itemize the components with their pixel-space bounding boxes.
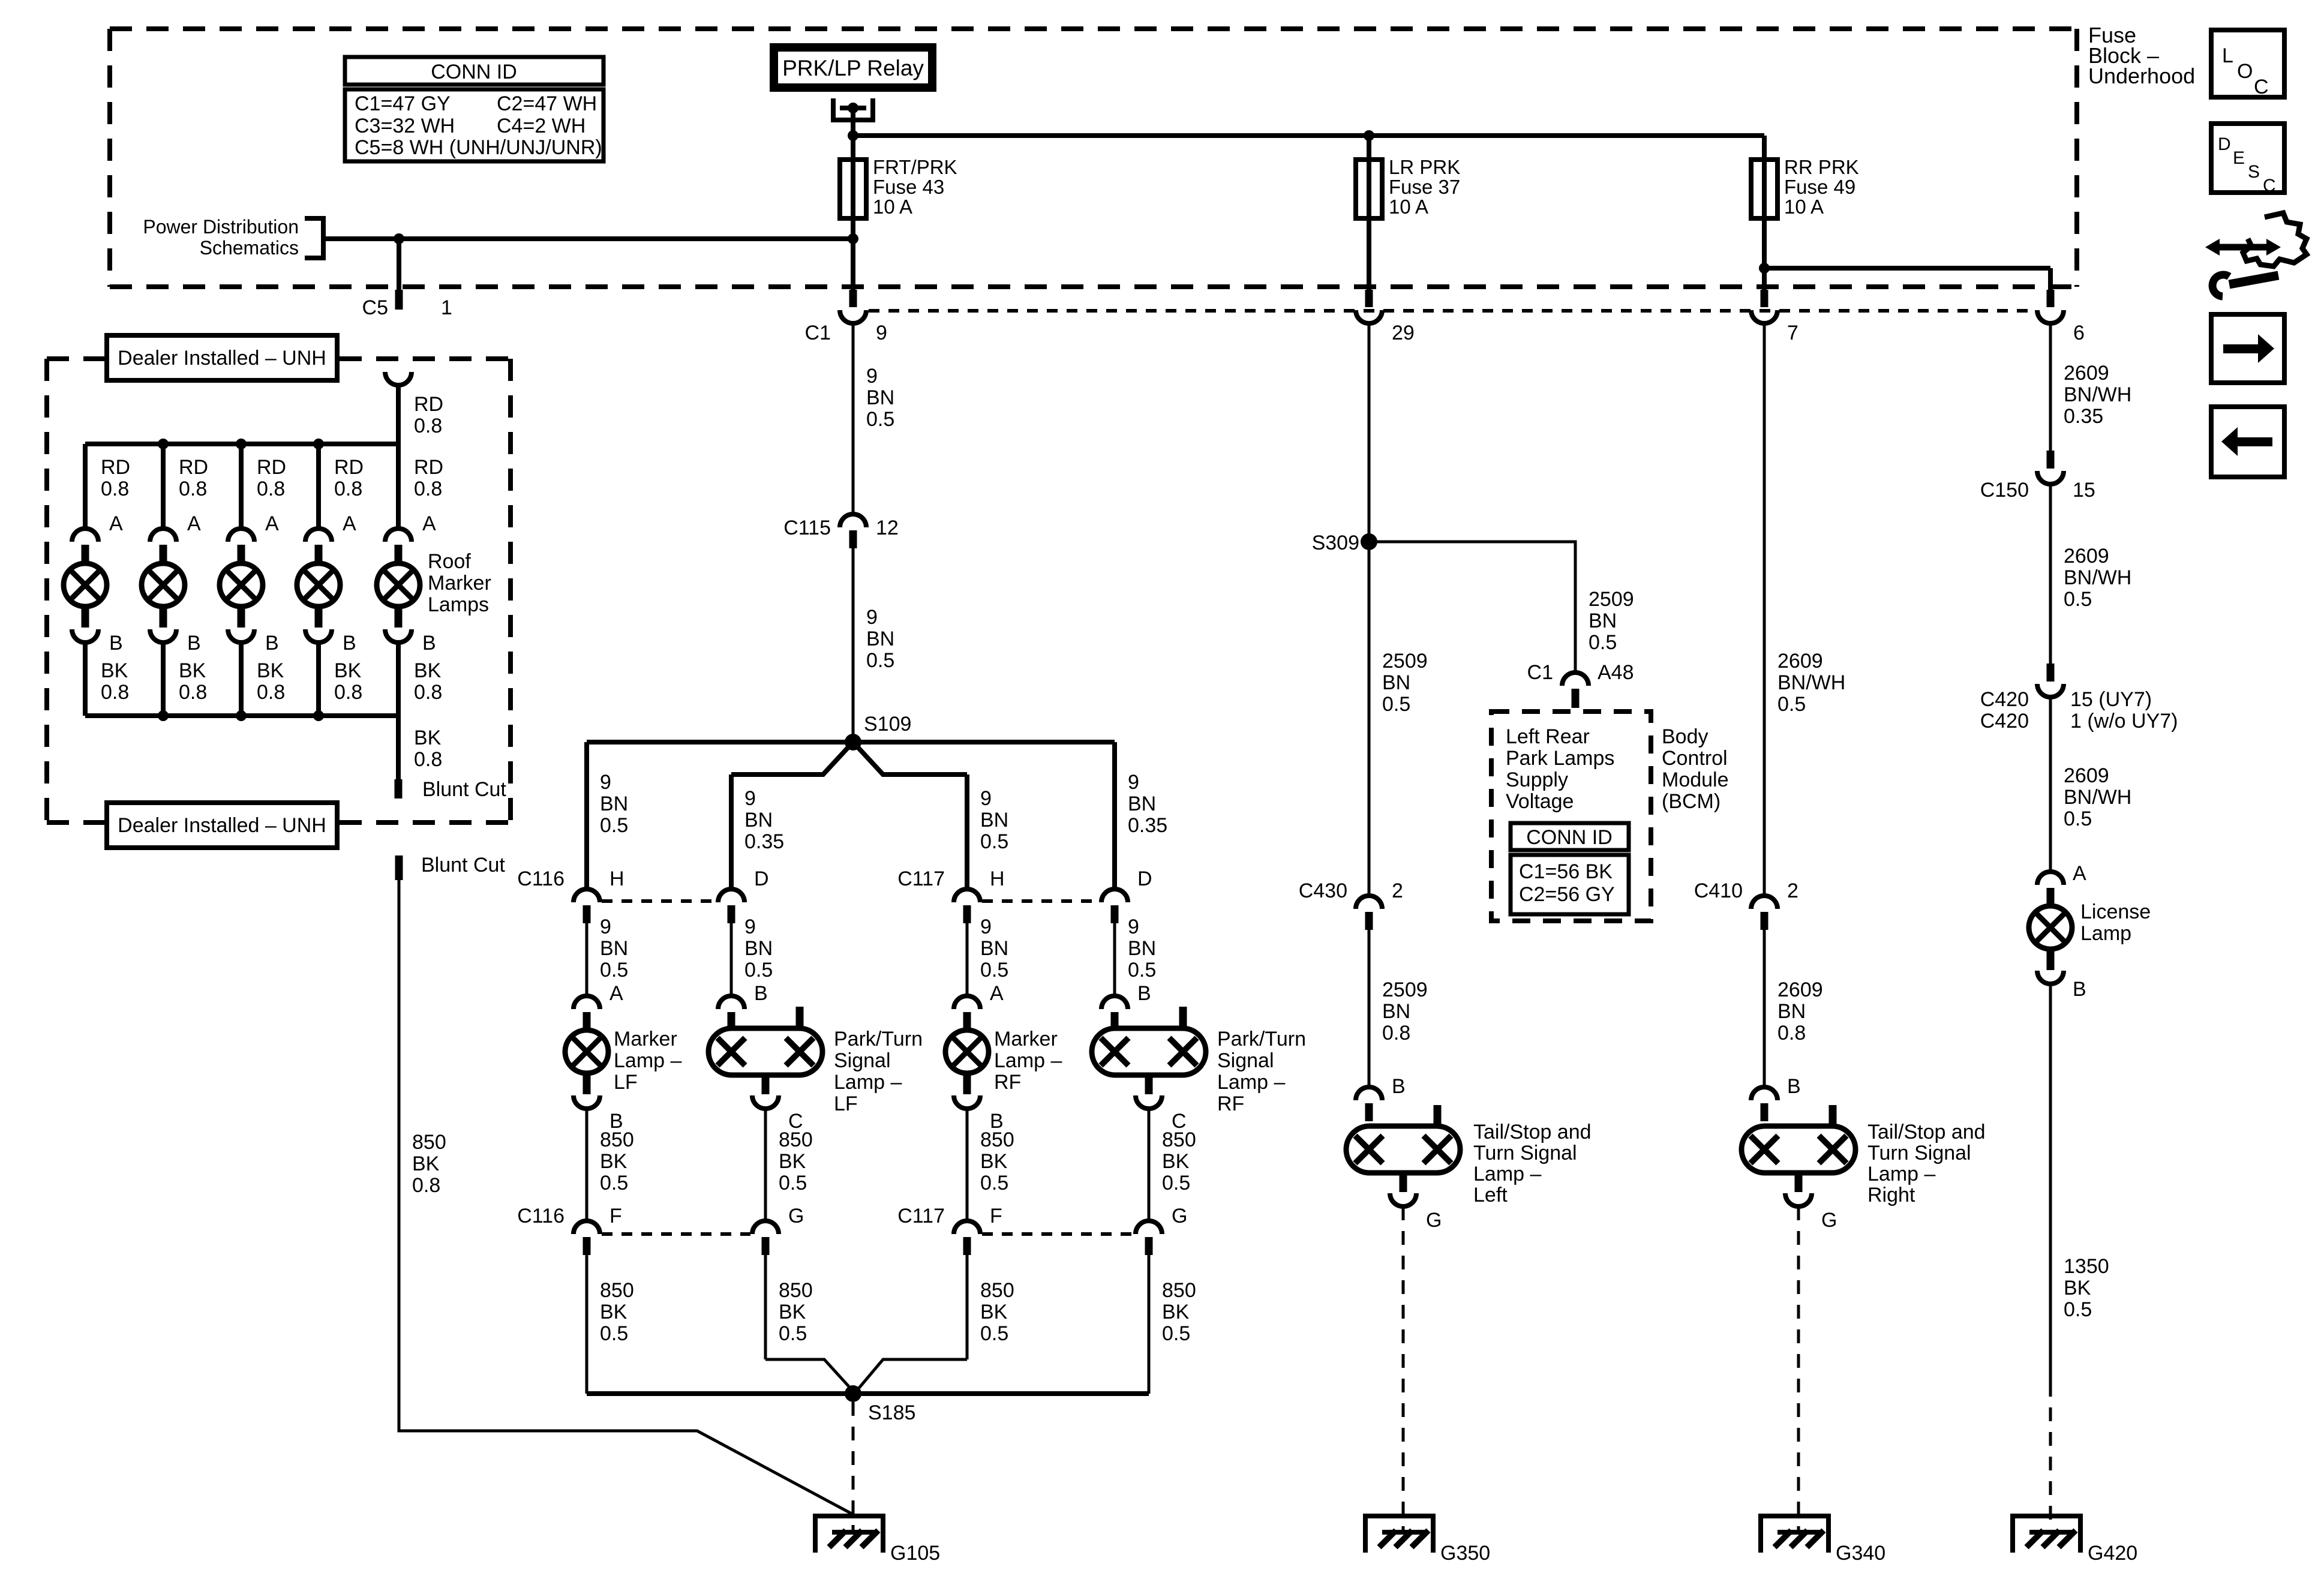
svg-text:0.5: 0.5 xyxy=(866,649,894,672)
wire S185 to G105 xyxy=(852,1402,855,1532)
connector C1 pin 29 xyxy=(1365,290,1373,307)
svg-text:850: 850 xyxy=(779,1128,813,1151)
svg-text:S309: S309 xyxy=(1312,532,1359,554)
connector C430 pin 2 xyxy=(1356,896,1382,909)
connector C116 H/D dashed outline xyxy=(602,899,716,903)
icon back arrow box xyxy=(2211,407,2284,477)
svg-text:BN/WH: BN/WH xyxy=(1777,671,1845,694)
svg-text:BK: BK xyxy=(779,1301,806,1323)
svg-text:0.8: 0.8 xyxy=(101,681,129,704)
svg-text:A48: A48 xyxy=(1598,661,1634,684)
wire branch to C116 D xyxy=(729,775,734,889)
svg-text:0.8: 0.8 xyxy=(414,478,442,500)
svg-text:Lamp –: Lamp – xyxy=(1473,1163,1541,1185)
svg-text:0.5: 0.5 xyxy=(779,1172,807,1194)
svg-text:C117: C117 xyxy=(897,1205,945,1227)
svg-text:RD: RD xyxy=(414,393,443,416)
svg-text:Right: Right xyxy=(1867,1184,1915,1206)
svg-text:S: S xyxy=(2248,162,2260,182)
svg-text:850: 850 xyxy=(980,1128,1014,1151)
connector pin G xyxy=(752,1221,779,1234)
wire branch to C116 H xyxy=(584,742,589,889)
connector roof marker harness end xyxy=(385,372,412,385)
svg-text:BN: BN xyxy=(1128,792,1156,815)
wire branch to C117 D xyxy=(1112,742,1117,889)
wire 2609 BN/WH 0.5 (C150 to C420) xyxy=(2049,484,2052,664)
wire branch to C117 H xyxy=(965,775,969,889)
svg-text:15 (UY7): 15 (UY7) xyxy=(2070,688,2152,711)
blunt cut (inside dealer box) xyxy=(395,779,403,798)
svg-text:B: B xyxy=(422,632,436,655)
svg-text:BN: BN xyxy=(1777,1000,1806,1023)
wire 9 BN 0.5 to lamp xyxy=(966,923,969,996)
svg-text:0.5: 0.5 xyxy=(744,959,773,981)
svg-text:G: G xyxy=(1426,1209,1442,1232)
svg-text:2609: 2609 xyxy=(1777,650,1823,673)
connector pin D xyxy=(1101,889,1128,902)
svg-text:Voltage: Voltage xyxy=(1506,790,1574,813)
svg-text:B: B xyxy=(2073,978,2086,1001)
connector C117 F/G dashed outline xyxy=(982,1232,1134,1236)
svg-text:0.8: 0.8 xyxy=(414,681,442,704)
svg-text:0.5: 0.5 xyxy=(1382,693,1410,716)
svg-text:C410: C410 xyxy=(1694,879,1743,902)
tail/stop and turn signal lamp right xyxy=(1742,1105,1855,1206)
wire 2509 BN 0.5 (S309 to C430) xyxy=(1368,550,1371,896)
svg-text:0.8: 0.8 xyxy=(414,415,442,437)
svg-text:Supply: Supply xyxy=(1506,769,1568,791)
wire RR PRK fuse column xyxy=(1762,136,1767,290)
svg-text:C: C xyxy=(2263,176,2276,196)
connector C1 dashed outline xyxy=(869,309,2036,313)
svg-text:D: D xyxy=(754,867,769,890)
wire C117 F to S185 xyxy=(966,1255,969,1359)
svg-text:850: 850 xyxy=(1162,1128,1196,1151)
svg-text:BN: BN xyxy=(980,937,1008,960)
svg-text:Marker: Marker xyxy=(614,1028,677,1050)
svg-text:Lamp: Lamp xyxy=(2080,922,2131,945)
node relay/bus junction xyxy=(848,130,858,141)
svg-text:12: 12 xyxy=(876,517,899,539)
svg-text:S185: S185 xyxy=(868,1401,915,1424)
svg-text:0.8: 0.8 xyxy=(334,478,362,500)
svg-text:0.8: 0.8 xyxy=(101,478,129,500)
node RR PRK pin-6 branch junction xyxy=(1759,263,1770,274)
svg-text:C117: C117 xyxy=(897,867,945,890)
svg-text:Lamp –: Lamp – xyxy=(1867,1163,1935,1185)
svg-text:Park/Turn: Park/Turn xyxy=(1217,1028,1306,1050)
svg-text:BK: BK xyxy=(101,659,128,682)
wire 850 BK 0.8 to G105 xyxy=(399,880,855,1515)
svg-text:Lamp –: Lamp – xyxy=(834,1071,902,1094)
svg-text:0.5: 0.5 xyxy=(980,959,1008,981)
svg-text:D: D xyxy=(1137,867,1152,890)
svg-text:H: H xyxy=(990,867,1005,890)
wire RR PRK to pin 6 xyxy=(1764,266,2050,271)
svg-text:BN/WH: BN/WH xyxy=(2064,383,2131,406)
wire 1350 BK 0.5 xyxy=(2049,984,2052,1383)
ground G350 xyxy=(1363,1516,1436,1553)
svg-text:Underhood: Underhood xyxy=(2088,64,2195,88)
svg-text:0.35: 0.35 xyxy=(1128,814,1167,837)
svg-text:0.8: 0.8 xyxy=(334,681,362,704)
svg-text:A: A xyxy=(265,512,279,535)
label box Dealer Installed UNH (top) xyxy=(107,335,337,380)
license lamp xyxy=(2029,906,2072,984)
connector C1 pin 9 xyxy=(849,290,857,307)
park/turn signal lamp LF xyxy=(708,1007,822,1109)
wire fuse supply bus xyxy=(853,133,1764,138)
svg-text:BK: BK xyxy=(600,1301,627,1323)
connector lamp input xyxy=(718,996,744,1009)
svg-text:BN: BN xyxy=(1382,671,1410,694)
wire LR PRK fuse column xyxy=(1367,136,1371,290)
svg-text:BN/WH: BN/WH xyxy=(2064,566,2131,589)
svg-text:CONN ID: CONN ID xyxy=(1526,826,1613,849)
svg-text:E: E xyxy=(2233,148,2245,168)
fuse RR PRK Fuse 49 10A xyxy=(1751,160,1777,218)
svg-text:C1: C1 xyxy=(805,322,831,344)
ground G420 xyxy=(2010,1516,2083,1553)
svg-text:G: G xyxy=(1172,1205,1187,1227)
svg-text:BK: BK xyxy=(334,659,362,682)
connector C1 pin 6 xyxy=(2047,290,2055,307)
label box Dealer Installed UNH (bottom) xyxy=(107,803,337,848)
splice S109 xyxy=(845,734,861,751)
svg-text:G: G xyxy=(1821,1209,1837,1232)
node roof marker bus junction xyxy=(236,439,247,449)
svg-text:G350: G350 xyxy=(1440,1542,1490,1565)
svg-text:C4=2 WH: C4=2 WH xyxy=(497,115,585,137)
svg-text:PRK/LP Relay: PRK/LP Relay xyxy=(782,56,924,80)
svg-text:9: 9 xyxy=(876,322,887,344)
svg-text:Fuse 37: Fuse 37 xyxy=(1389,176,1460,198)
svg-text:A: A xyxy=(187,512,201,535)
node power feed fuse column junction xyxy=(848,233,858,244)
wire 9 BN 0.5 to lamp xyxy=(730,923,733,996)
svg-text:C5: C5 xyxy=(362,296,388,319)
svg-text:0.35: 0.35 xyxy=(2064,405,2103,428)
svg-text:0.5: 0.5 xyxy=(600,959,628,981)
svg-text:RD: RD xyxy=(179,456,208,479)
connector pin H xyxy=(954,889,980,902)
svg-text:0.8: 0.8 xyxy=(257,478,285,500)
BCM dashed box xyxy=(1491,712,1651,921)
svg-text:B: B xyxy=(265,632,279,655)
svg-text:C420: C420 xyxy=(1980,710,2029,733)
fuse FRT/PRK Fuse 43 10A xyxy=(840,160,866,218)
svg-text:10 A: 10 A xyxy=(1784,196,1824,218)
svg-text:0.35: 0.35 xyxy=(744,830,784,853)
node roof marker bus junction xyxy=(313,439,324,449)
svg-text:C2=47 WH: C2=47 WH xyxy=(497,92,597,115)
svg-text:Fuse 43: Fuse 43 xyxy=(873,176,944,198)
svg-text:RR PRK: RR PRK xyxy=(1784,156,1859,178)
svg-text:A: A xyxy=(609,982,623,1005)
svg-text:C420: C420 xyxy=(1980,688,2029,711)
svg-text:BK: BK xyxy=(179,659,206,682)
connector C410 pin 2 xyxy=(1751,896,1777,909)
svg-text:RF: RF xyxy=(994,1071,1021,1094)
svg-text:BK: BK xyxy=(1162,1150,1190,1173)
CONN ID table (BCM) xyxy=(1511,823,1629,914)
svg-text:0.8: 0.8 xyxy=(414,748,442,771)
connector C116 F/G dashed outline xyxy=(602,1232,750,1236)
connector C1 pin 7 xyxy=(1761,290,1768,307)
svg-text:A: A xyxy=(990,982,1004,1005)
svg-text:2609: 2609 xyxy=(1777,978,1823,1001)
svg-text:Lamp –: Lamp – xyxy=(614,1049,681,1072)
svg-text:Lamp –: Lamp – xyxy=(994,1049,1062,1072)
svg-text:2509: 2509 xyxy=(1382,650,1428,673)
wire 9 BN 0.5 to lamp xyxy=(585,923,588,996)
svg-text:9: 9 xyxy=(744,787,756,810)
icon forward arrow box xyxy=(2211,314,2284,383)
wire C117 G to S185 xyxy=(1148,1255,1151,1394)
connector C115 pin 12 xyxy=(840,514,866,527)
svg-text:BK: BK xyxy=(980,1301,1008,1323)
svg-text:Park Lamps: Park Lamps xyxy=(1506,747,1614,770)
svg-text:0.5: 0.5 xyxy=(980,1322,1008,1345)
svg-text:Signal: Signal xyxy=(834,1049,891,1072)
svg-text:0.8: 0.8 xyxy=(179,478,207,500)
wire C116 G to S185 xyxy=(764,1255,767,1359)
wire 2509 BN 0.8 (C430 to lamp) xyxy=(1368,930,1371,1087)
svg-text:9: 9 xyxy=(600,915,611,938)
svg-text:O: O xyxy=(2237,60,2253,83)
svg-text:7: 7 xyxy=(1787,322,1798,344)
svg-text:BN: BN xyxy=(1589,610,1617,632)
connector lamp input xyxy=(1101,996,1128,1009)
wire roof marker top bus xyxy=(85,442,398,446)
svg-text:BN/WH: BN/WH xyxy=(2064,786,2131,809)
svg-text:Fuse 49: Fuse 49 xyxy=(1784,176,1855,198)
svg-text:F: F xyxy=(990,1205,1002,1227)
dealer installed UNH dashed box xyxy=(47,359,511,822)
svg-text:10 A: 10 A xyxy=(873,196,912,218)
svg-text:2: 2 xyxy=(1787,879,1798,902)
fuse LR PRK Fuse 37 10A xyxy=(1356,160,1382,218)
svg-text:BK: BK xyxy=(779,1150,806,1173)
roof marker lamp 1 branch xyxy=(64,444,130,716)
wire 9 BN 0.5 (C1-9 to C115) xyxy=(852,323,855,514)
svg-text:0.5: 0.5 xyxy=(600,1172,628,1194)
label Power Distribution Schematics xyxy=(143,216,323,259)
svg-text:9: 9 xyxy=(1128,915,1139,938)
icon LOC box xyxy=(2211,30,2284,98)
svg-text:0.5: 0.5 xyxy=(980,830,1008,853)
roof marker lamp 4 branch xyxy=(297,444,364,716)
node C5 branch junction xyxy=(394,233,404,244)
svg-text:Lamp –: Lamp – xyxy=(1217,1071,1285,1094)
connector C5 pin 1 xyxy=(395,290,403,310)
roof marker lamp 3 branch xyxy=(220,444,286,716)
svg-text:G: G xyxy=(788,1205,804,1227)
svg-text:2609: 2609 xyxy=(2064,764,2109,787)
svg-text:F: F xyxy=(609,1205,622,1227)
connector pin G xyxy=(1136,1221,1162,1234)
svg-text:Tail/Stop and: Tail/Stop and xyxy=(1867,1121,1986,1143)
wire relay to bus xyxy=(851,108,855,138)
svg-text:BN: BN xyxy=(980,809,1008,831)
svg-text:9: 9 xyxy=(980,787,992,810)
svg-text:0.5: 0.5 xyxy=(2064,1298,2092,1321)
svg-text:Schematics: Schematics xyxy=(200,237,299,259)
svg-text:FRT/PRK: FRT/PRK xyxy=(873,156,957,178)
wire 2609 BN 0.8 (C410 to lamp) xyxy=(1763,930,1766,1087)
svg-text:9: 9 xyxy=(980,915,992,938)
svg-text:BN: BN xyxy=(600,937,628,960)
splice S309 xyxy=(1361,533,1377,550)
relay PRK/LP Relay label box xyxy=(774,47,932,88)
svg-text:0.5: 0.5 xyxy=(1589,631,1617,654)
svg-text:2509: 2509 xyxy=(1589,588,1634,611)
svg-text:9: 9 xyxy=(744,915,756,938)
svg-text:BK: BK xyxy=(2064,1277,2091,1299)
svg-text:0.8: 0.8 xyxy=(179,681,207,704)
connector pin F xyxy=(574,1221,600,1234)
wire S185 inner jogs xyxy=(765,1359,854,1392)
svg-text:BN: BN xyxy=(744,937,773,960)
wire 9 BN 0.5 (C115 to S109) xyxy=(852,548,855,742)
svg-text:2609: 2609 xyxy=(2064,545,2109,568)
connector C420 pin 15 xyxy=(2047,664,2055,682)
svg-text:Park/Turn: Park/Turn xyxy=(834,1028,923,1050)
svg-text:0.5: 0.5 xyxy=(600,814,628,837)
wire 2609 BN/WH 0.5 (pin 7 to C410) xyxy=(1763,323,1766,896)
svg-text:Blunt Cut: Blunt Cut xyxy=(421,854,505,876)
marker lamp LF xyxy=(565,1030,608,1109)
svg-text:License: License xyxy=(2080,900,2151,923)
icon wiring repair (arrows and wrench) xyxy=(2205,213,2307,296)
wire roof marker bottom bus xyxy=(85,713,398,718)
svg-text:850: 850 xyxy=(779,1279,813,1302)
svg-text:RD: RD xyxy=(101,456,130,479)
connector pin H xyxy=(574,889,600,902)
svg-text:Left: Left xyxy=(1473,1184,1508,1206)
svg-text:B: B xyxy=(1787,1075,1801,1098)
svg-text:850: 850 xyxy=(1162,1279,1196,1302)
svg-text:C2=56 GY: C2=56 GY xyxy=(1519,883,1615,906)
svg-text:G340: G340 xyxy=(1836,1542,1885,1565)
connector C117 H/D dashed outline xyxy=(982,899,1100,903)
svg-text:9: 9 xyxy=(866,365,878,388)
svg-text:0.5: 0.5 xyxy=(980,1172,1008,1194)
wire 2609 BN/WH 0.5 (C420 to lamp) xyxy=(2049,697,2052,872)
wire FRT/PRK fuse column xyxy=(851,136,855,290)
svg-text:Control: Control xyxy=(1662,747,1728,770)
node roof marker bus junction xyxy=(158,439,169,449)
svg-text:Signal: Signal xyxy=(1217,1049,1274,1072)
svg-text:1: 1 xyxy=(441,296,452,319)
svg-text:9: 9 xyxy=(1128,771,1139,794)
svg-text:B: B xyxy=(1137,982,1151,1005)
svg-text:BN: BN xyxy=(1128,937,1156,960)
wire tail lamp left ground xyxy=(1402,1206,1405,1532)
svg-text:Roof: Roof xyxy=(428,550,471,573)
svg-text:0.5: 0.5 xyxy=(1128,959,1156,981)
svg-text:2509: 2509 xyxy=(1382,978,1428,1001)
wire C5 drop xyxy=(397,239,401,290)
wire C116 F to S185 xyxy=(585,1255,588,1394)
svg-text:A: A xyxy=(422,512,436,535)
wire 850 BK 0.5 xyxy=(966,1109,969,1221)
connector C150 pin 15 xyxy=(2047,451,2055,469)
svg-text:0.5: 0.5 xyxy=(1162,1172,1190,1194)
svg-text:BN: BN xyxy=(1382,1000,1410,1023)
svg-text:BK: BK xyxy=(414,727,442,749)
svg-text:0.5: 0.5 xyxy=(779,1322,807,1345)
svg-text:29: 29 xyxy=(1392,322,1415,344)
svg-text:CONN ID: CONN ID xyxy=(431,61,517,83)
svg-text:RF: RF xyxy=(1217,1092,1244,1115)
svg-text:C1: C1 xyxy=(1527,661,1553,684)
svg-text:A: A xyxy=(109,512,123,535)
svg-text:BK: BK xyxy=(257,659,284,682)
svg-text:Power Distribution: Power Distribution xyxy=(143,216,299,238)
svg-text:6: 6 xyxy=(2073,322,2085,344)
svg-text:C: C xyxy=(2254,76,2269,98)
svg-text:0.8: 0.8 xyxy=(1777,1022,1806,1044)
ground G340 xyxy=(1758,1516,1831,1553)
svg-text:2609: 2609 xyxy=(2064,362,2109,385)
connector C1 pin A48 (BCM) xyxy=(1562,673,1589,686)
wire RD 0.8 feed xyxy=(396,385,401,444)
svg-text:BN: BN xyxy=(600,792,628,815)
connector lamp input xyxy=(574,996,600,1009)
svg-text:1350: 1350 xyxy=(2064,1255,2109,1278)
marker lamp RF xyxy=(945,1030,989,1109)
svg-text:C150: C150 xyxy=(1980,479,2029,502)
svg-text:10 A: 10 A xyxy=(1389,196,1428,218)
svg-text:LF: LF xyxy=(834,1092,858,1115)
splice S185 xyxy=(845,1385,861,1402)
svg-text:A: A xyxy=(2073,862,2086,885)
svg-text:C1=47 GY: C1=47 GY xyxy=(355,92,451,115)
svg-text:0.5: 0.5 xyxy=(1162,1322,1190,1345)
svg-text:0.5: 0.5 xyxy=(2064,807,2092,830)
svg-text:0.5: 0.5 xyxy=(600,1322,628,1345)
wire power distribution feed xyxy=(323,236,853,241)
svg-text:C1=56 BK: C1=56 BK xyxy=(1519,860,1613,883)
svg-text:BN: BN xyxy=(744,809,773,831)
connector pin F xyxy=(954,1221,980,1234)
svg-text:B: B xyxy=(187,632,201,655)
tail/stop and turn signal lamp left xyxy=(1346,1105,1460,1206)
svg-text:850: 850 xyxy=(980,1279,1014,1302)
svg-text:C115: C115 xyxy=(783,517,831,539)
icon DESC box xyxy=(2211,124,2284,196)
svg-text:Left Rear: Left Rear xyxy=(1506,725,1590,748)
blunt cut (850 BK circuit) xyxy=(395,855,403,880)
svg-text:9: 9 xyxy=(866,606,878,629)
wire S109 bus xyxy=(587,740,1115,745)
svg-text:A: A xyxy=(343,512,356,535)
ground G105 xyxy=(813,1516,885,1553)
svg-text:0.8: 0.8 xyxy=(1382,1022,1410,1044)
svg-text:G105: G105 xyxy=(890,1542,940,1565)
svg-text:RD: RD xyxy=(334,456,364,479)
svg-text:BK: BK xyxy=(412,1152,440,1175)
svg-text:B: B xyxy=(343,632,356,655)
relay PRK/LP contact symbol xyxy=(831,98,875,122)
svg-text:D: D xyxy=(2218,134,2231,154)
svg-text:Dealer Installed – UNH: Dealer Installed – UNH xyxy=(118,814,326,837)
wire 850 BK 0.5 xyxy=(1148,1109,1151,1221)
svg-text:RD: RD xyxy=(257,456,286,479)
fuse block underhood dashed box xyxy=(110,29,2077,287)
svg-text:Lamps: Lamps xyxy=(428,593,489,616)
